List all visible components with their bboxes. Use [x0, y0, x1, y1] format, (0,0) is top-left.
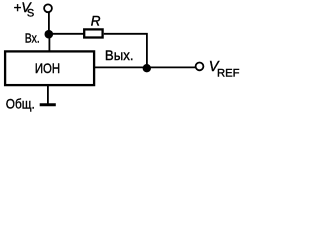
- wire from input junction down to ИОН box top: [48, 34, 50, 52]
- terminal +Vs (open circle): [44, 4, 52, 12]
- svg-text:Вх.: Вх.: [25, 31, 40, 46]
- node: input junction dot: [45, 30, 54, 39]
- terminal Vref (open circle): [196, 63, 204, 71]
- svg-text:R: R: [91, 14, 101, 29]
- resistor R: [84, 29, 102, 37]
- wire from resistor R right lead to output junction (corner at top right): [104, 34, 147, 66]
- node: output junction dot: [143, 64, 151, 72]
- svg-text:Вых.: Вых.: [105, 47, 134, 63]
- wire from ИОН output to Vref terminal: [95, 66, 196, 68]
- wire from input junction to resistor R left lead: [49, 33, 84, 35]
- wire from +Vs terminal down to input junction: [48, 12, 50, 32]
- op block: ИОН voltage reference box U1: [5, 51, 94, 85]
- svg-text:Общ.: Общ.: [6, 96, 35, 112]
- label +Vs: [14, 0, 35, 19]
- svg-text:ИОН: ИОН: [35, 60, 60, 76]
- svg-text:REF: REF: [217, 68, 240, 80]
- ground: [40, 103, 56, 106]
- svg-text:S: S: [27, 7, 34, 19]
- wire from ИОН box bottom (Общ. pin) down to ground: [47, 85, 49, 105]
- label Vref: [209, 59, 240, 79]
